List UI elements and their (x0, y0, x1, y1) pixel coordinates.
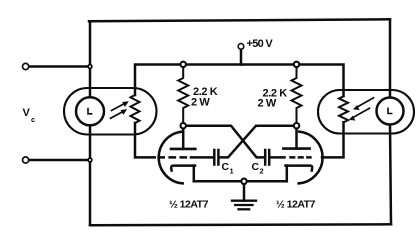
lamp L left (76, 97, 104, 125)
tube V2 plate lead (295, 129, 298, 149)
node junction on left rail lower (88, 158, 92, 162)
photoresistor right lower lead to grid wire (322, 122, 344, 157)
resistor R2 leads and zigzag (292, 68, 302, 122)
+50V lead wire (240, 50, 243, 65)
wire C1 left plate to grid of V1 (191, 156, 213, 159)
svg-text:2: 2 (260, 167, 264, 176)
tube V1 plate lead (182, 129, 185, 149)
capacitor C1 plates (213, 150, 216, 165)
svg-text:C: C (252, 161, 260, 173)
wire outer loop bottom (90, 224, 391, 225)
tube V1 plate bar (171, 148, 195, 151)
svg-text:½ 12AT7: ½ 12AT7 (276, 199, 316, 211)
opto-coupler housing right (318, 90, 414, 134)
input terminal upper (23, 63, 29, 69)
svg-text:V: V (23, 107, 31, 119)
label L left lamp (88, 108, 92, 114)
input terminal lower (23, 157, 29, 163)
svg-text:2 W: 2 W (191, 96, 210, 108)
node junctions and terminals (open circles) (23, 44, 300, 184)
wire outer loop left vertical (89, 21, 92, 225)
+50V terminal (238, 44, 244, 50)
svg-text:+50 V: +50 V (247, 38, 274, 50)
svg-text:1: 1 (230, 167, 234, 176)
wire outer loop right vertical (top segment to lamp) (389, 19, 392, 98)
svg-text:½ 12AT7: ½ 12AT7 (169, 199, 209, 211)
tube V1 cathode lead (193, 166, 196, 182)
ground lead wire (243, 181, 246, 200)
photoresistor left zigzag (131, 95, 140, 123)
node junction R1 top (181, 62, 186, 67)
cathode bus wire (194, 180, 287, 183)
ground symbol (232, 201, 256, 210)
wire plate of V2 to cross coupling (node B to diagonal) (220, 126, 294, 158)
tube V2 cathode lead (286, 166, 289, 182)
grid dashes tube V2 (289, 156, 311, 159)
grid dashes tube V1 (157, 156, 188, 159)
tube V1 cathode (171, 166, 195, 171)
light arrows left opto (111, 104, 125, 119)
node junction A (R1 bottom / plate V1) (181, 123, 186, 128)
lamp L right (377, 98, 404, 125)
plate supply bus wire (135, 65, 344, 97)
photoresistor left lower lead to grid wire (135, 123, 155, 157)
svg-text:C: C (222, 161, 230, 173)
node junction B (R2 bottom / plate V2) (294, 123, 299, 128)
photoresistor right zigzag (339, 96, 348, 122)
tube V2 envelope (299, 132, 323, 184)
tube V2 plate bar (283, 147, 309, 150)
wire lower input terminal to node (29, 159, 90, 162)
wire upper input terminal to node (29, 65, 90, 68)
node junction on left rail upper (88, 65, 92, 69)
tube V1 envelope (159, 132, 183, 184)
tube V2 cathode (286, 166, 313, 171)
opto-coupler housing left (64, 88, 157, 135)
label L right lamp (388, 108, 392, 114)
arrowheads for light arrows (121, 101, 360, 120)
light arrows right opto (353, 98, 373, 118)
wire outer loop right vertical (lamp to bottom) (390, 124, 391, 224)
node junction R2 top (294, 62, 299, 67)
node junction cathode/ground (241, 179, 246, 184)
wire plate of V1 to cross coupling (node A to diagonal) (187, 126, 265, 158)
resistor R1 leads and zigzag (178, 68, 188, 122)
wire C2 right plate to grid of V2 (270, 156, 284, 159)
svg-text:2 W: 2 W (258, 97, 277, 109)
wire outer loop top (89, 19, 390, 21)
svg-text:c: c (31, 115, 35, 124)
capacitor C2 plates (264, 150, 267, 165)
